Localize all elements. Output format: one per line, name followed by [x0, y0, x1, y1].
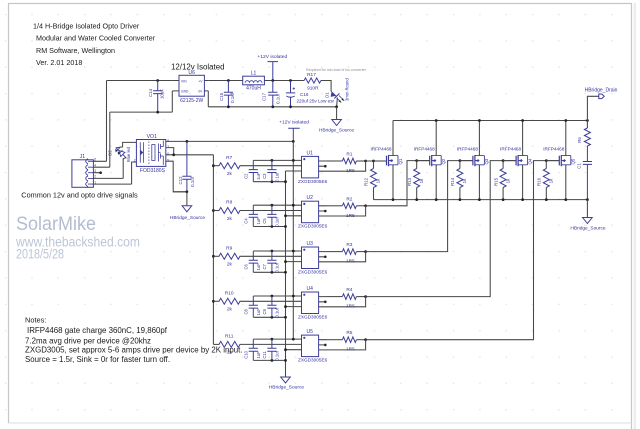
wire Q4 drain riser — [522, 121, 524, 156]
svg-text:Ver. 2.01 2018: Ver. 2.01 2018 — [36, 58, 82, 67]
wire U2 sink loop — [327, 206, 366, 216]
resistor R2 1R5 — [342, 203, 356, 209]
svg-text:1uF: 1uF — [256, 263, 261, 271]
svg-text:R9: R9 — [226, 246, 232, 252]
svg-text:1k: 1k — [505, 178, 510, 183]
svg-text:R6: R6 — [577, 137, 582, 143]
junction ch1 vcc rail cap — [271, 159, 274, 162]
gate driver U5 ZXGD3005E6 — [302, 335, 319, 357]
svg-text:0.1uf: 0.1uf — [275, 93, 280, 104]
svg-text:U6: U6 — [188, 70, 195, 76]
wire VO1 pin6 output — [166, 154, 214, 156]
wire +12V common riser (J1 pin5 to U6 VIN) — [106, 81, 108, 162]
wire ch3 gate run — [366, 161, 473, 252]
wire U3 to R3 — [327, 251, 343, 253]
junction ch3 gnd rail cap — [271, 271, 274, 274]
junction R1 output — [364, 160, 367, 163]
capacitor C8 1uF — [249, 296, 258, 317]
wire ch5 vcc rail — [253, 338, 301, 340]
wire Q1 source drop — [392, 165, 394, 200]
wire common gnd rail to U6 GND — [110, 91, 173, 112]
caption 12/12v Isolated — [171, 62, 225, 71]
svg-text:Notes:: Notes: — [25, 316, 46, 325]
title text block — [33, 21, 156, 67]
transistor Q1 IRFP4468 — [387, 155, 399, 166]
svg-text:Modular and Water Cooled Conve: Modular and Water Cooled Converter — [36, 34, 156, 43]
caption common signals — [21, 191, 138, 200]
junction ch1 vcc bus tap — [292, 159, 295, 162]
capacitor C16 220uf — [286, 81, 295, 107]
wire bus to R7 — [213, 165, 219, 167]
junction Q3 source rail — [478, 198, 481, 201]
wire to HBridge_Drain flag — [587, 96, 598, 120]
svg-text:6: 6 — [167, 152, 169, 156]
junction Q1 gate — [372, 160, 375, 163]
wire R1 out — [356, 160, 365, 162]
wire opto drive bus — [212, 155, 214, 345]
junction Q2 gate — [415, 159, 418, 162]
junction ch4 gnd rail bus — [284, 316, 287, 319]
svg-text:1uF: 1uF — [256, 351, 261, 359]
svg-text:3mm Round: 3mm Round — [345, 78, 350, 101]
svg-text:2k: 2k — [227, 262, 233, 268]
svg-text:ZXGD3005E6: ZXGD3005E6 — [298, 358, 328, 363]
svg-text:GND: GND — [181, 90, 189, 94]
capacitor C11 0.1uf — [267, 339, 276, 360]
svg-text:0.1uf: 0.1uf — [274, 350, 279, 360]
wire Q5 gate stub — [546, 160, 559, 162]
svg-text:D2: D2 — [108, 150, 113, 156]
svg-text:D1: D1 — [324, 92, 329, 98]
capacitor C2 1uF — [249, 160, 258, 181]
resistor R13 1k — [414, 169, 420, 188]
svg-text:C15: C15 — [219, 92, 224, 101]
junction ch2 gnd pin tap — [284, 214, 287, 217]
svg-text:C1: C1 — [577, 163, 582, 169]
svg-text:R8: R8 — [226, 200, 232, 206]
transistor Q2 IRFP4468 — [430, 155, 442, 166]
junction VO1 pins 6-7 — [172, 153, 175, 156]
wire Q4 source drop — [522, 165, 524, 200]
svg-text:U3: U3 — [306, 241, 313, 247]
resistor R1 1R5 — [342, 158, 356, 164]
capacitor C14 — [153, 81, 162, 113]
wire U1 sink loop — [327, 161, 366, 171]
wire drain rail — [393, 120, 587, 122]
svg-text:2k: 2k — [227, 171, 233, 177]
junction Q1 source rail — [392, 198, 395, 201]
wire ch2 vcc rail — [253, 204, 301, 206]
transistor Q4 IRFP4468 — [516, 155, 528, 166]
junction C14 bottom — [156, 111, 159, 114]
junction Q4 drain rail — [521, 119, 524, 122]
junction R15 source rail — [502, 198, 505, 201]
junction drain rail right — [586, 119, 589, 122]
LED D2 (Blue led) — [115, 148, 126, 158]
capacitor C3 0.1uf — [267, 160, 276, 181]
svg-text:U1: U1 — [306, 150, 313, 156]
svg-text:C17: C17 — [261, 92, 266, 101]
svg-text:Q2: Q2 — [441, 158, 446, 164]
LED D1 3mm Round — [331, 91, 345, 103]
junction ch4 gnd rail cap — [271, 316, 274, 319]
wire R8 to U2 input — [240, 210, 302, 212]
svg-text:R14: R14 — [450, 177, 455, 186]
svg-text:IRFP4468 gate charge 360nC, 1: IRFP4468 gate charge 360nC, 19,860pf — [27, 326, 168, 335]
junction R5 output — [364, 338, 367, 341]
no-connect dot J1 pin 3 — [99, 171, 102, 174]
svg-text:7.2ma avg drive per device @2: 7.2ma avg drive per device @20khz — [25, 336, 151, 345]
junction ch3 gnd pin tap — [284, 260, 287, 263]
svg-text:0.1uf: 0.1uf — [274, 262, 279, 272]
junction R16 source rail — [545, 198, 548, 201]
wire R16 leads — [545, 161, 547, 200]
resistor R6 — [584, 128, 590, 146]
optocoupler VO1 FOD3180S — [136, 140, 165, 167]
wire U4 to R4 — [327, 296, 343, 298]
svg-text:2018/5/28: 2018/5/28 — [16, 246, 64, 261]
wire R12 leads — [373, 161, 375, 200]
connector J1 — [72, 154, 96, 187]
junction C1 source rail — [586, 198, 589, 201]
junction C14 top — [156, 79, 159, 82]
svg-text:ZXGD3005, set approx 5-6 amps: ZXGD3005, set approx 5-6 amps drive per … — [25, 346, 243, 355]
junction Q4 source rail — [521, 198, 524, 201]
junction Q5 drain rail — [564, 119, 567, 122]
junction ch4 vcc rail cap — [271, 295, 274, 298]
ground HBridge_Source (driver bus) — [281, 377, 291, 383]
svg-text:IRFP4468: IRFP4468 — [370, 146, 391, 151]
wire Q3 gate stub — [460, 160, 473, 162]
junction ch4 vcc bus tap — [292, 295, 295, 298]
svg-text:1k: 1k — [462, 178, 467, 183]
svg-text:0.1uf: 0.1uf — [230, 92, 235, 103]
no-connect dot U5 mid pin — [324, 344, 327, 347]
junction ch5 gnd pin tap — [284, 348, 287, 351]
wire bus to R8 — [213, 210, 219, 212]
svg-text:C9: C9 — [262, 308, 267, 314]
wire U2 output pins — [319, 206, 327, 216]
wire ch3 vcc rail — [253, 250, 301, 252]
svg-text:IRFP4468: IRFP4468 — [500, 146, 521, 151]
wire LED D2 risers — [116, 142, 136, 158]
junction ch5 vcc rail cap — [271, 338, 274, 341]
svg-text:R3: R3 — [346, 242, 352, 248]
wire Q5 drain riser — [565, 121, 567, 156]
wire isolated +12V line — [208, 81, 331, 92]
wire to ground flag D1 — [336, 107, 338, 120]
junction ch1 gnd rail cap — [271, 180, 274, 183]
junction C17 top — [271, 79, 274, 82]
inductor L1 470uH — [243, 76, 265, 85]
power flag +12V isolated (driver bus) — [279, 120, 309, 142]
gate driver U1 ZXGD3005E6 — [302, 156, 319, 178]
junction ch5 gnd rail cap — [271, 359, 274, 362]
junction Q4 gate — [502, 159, 505, 162]
svg-text:C16: C16 — [300, 92, 309, 97]
svg-text:1uF: 1uF — [256, 308, 261, 316]
wire U6 pin stubs — [172, 81, 208, 91]
svg-text:Q3: Q3 — [484, 158, 489, 164]
svg-text:SolarMike: SolarMike — [16, 213, 96, 235]
wire U4 output pins — [319, 297, 327, 307]
watermark SolarMike — [15, 213, 140, 262]
svg-text:Q5: Q5 — [571, 158, 576, 164]
svg-text:IRFP4468: IRFP4468 — [543, 146, 564, 151]
ground HBridge_Source (right) — [583, 218, 593, 224]
notes text block — [25, 316, 243, 365]
svg-text:C12: C12 — [178, 176, 183, 185]
wire U3 output pins — [319, 252, 327, 262]
svg-text:R17: R17 — [307, 72, 316, 78]
svg-text:J1: J1 — [80, 154, 86, 160]
wire U5 to R5 — [327, 339, 343, 341]
junction Q2 source rail — [435, 198, 438, 201]
no-connect dot U2 mid pin — [324, 210, 327, 213]
wire source rail — [374, 199, 588, 201]
wire Q1 gate stub — [374, 160, 387, 162]
svg-text:C6: C6 — [244, 263, 249, 269]
svg-text:HBridge_Source: HBridge_Source — [269, 385, 305, 391]
junction +12V bus top — [292, 140, 295, 143]
capacitor C17 — [268, 81, 277, 107]
capacitor C1 — [583, 146, 592, 200]
junction R13 source rail — [415, 198, 418, 201]
svg-text:C10: C10 — [244, 350, 249, 358]
svg-text:1/4 H-Bridge Isolated Opto Dri: 1/4 H-Bridge Isolated Opto Driver — [33, 21, 140, 30]
junction C17 bottom — [271, 105, 274, 108]
wire ch4 vcc rail — [253, 295, 301, 297]
wire ch4 gnd rail — [253, 307, 301, 318]
svg-text:R12: R12 — [364, 177, 369, 186]
gate driver U3 ZXGD3005E6 — [302, 247, 319, 269]
svg-text:2k: 2k — [227, 350, 233, 356]
wire Q3 source drop — [478, 165, 480, 200]
svg-text:C5: C5 — [262, 218, 267, 224]
wire +12V isolated bus — [292, 141, 294, 339]
wire bus to R9 — [213, 255, 219, 257]
junction ch2 gnd rail cap — [271, 225, 274, 228]
resistor R8 2k — [219, 208, 240, 214]
DC-DC module U6 62125-2W — [179, 75, 204, 96]
resistor R17 — [304, 78, 321, 83]
capacitor C5 0.1uf — [267, 205, 276, 226]
capacitor C4 1uF — [249, 205, 258, 226]
wire Q2 gate stub — [417, 160, 430, 162]
resistor R9 2k — [219, 253, 240, 259]
resistor R10 2k — [219, 298, 240, 304]
wire bus to R11 — [213, 343, 219, 345]
wire ch1 gate run — [366, 160, 387, 162]
svg-text:R11: R11 — [225, 334, 234, 340]
wire U1 to R1 — [327, 160, 343, 162]
resistor R4 1R5 — [342, 294, 356, 300]
wire R14 leads — [459, 161, 461, 200]
junction Q2 drain rail — [435, 119, 438, 122]
junction ch2 vcc bus tap — [292, 204, 295, 207]
svg-text:Required for min load of iso c: Required for min load of iso converter — [306, 68, 367, 72]
svg-text:1k: 1k — [376, 178, 381, 183]
svg-text:+12V isolated: +12V isolated — [257, 54, 287, 60]
svg-text:220uf 25v Low esr: 220uf 25v Low esr — [297, 98, 335, 103]
wire ch1 vcc rail — [253, 159, 301, 161]
wire Q5 source drop — [565, 165, 567, 200]
capacitor C6 1uF — [249, 251, 258, 272]
wire C12 bottom tie — [173, 191, 187, 193]
junction ch1 gnd rail bus — [284, 180, 287, 183]
ground HBridge_Source (opto) — [182, 206, 192, 212]
wire J1 pin1 to VO1 pin2 — [132, 162, 137, 184]
junction Q5 gate — [545, 159, 548, 162]
junction Q3 gate — [459, 159, 462, 162]
junction opto bus ch4 — [212, 300, 215, 303]
wire R7 to U1 input — [240, 165, 302, 167]
wire +12V isolated rail (opto row) — [187, 140, 293, 142]
svg-text:C7: C7 — [262, 263, 267, 269]
wire ch2 gnd rail — [253, 216, 301, 227]
svg-text:L1: L1 — [251, 71, 257, 77]
ground HBridge_Source (D1) — [332, 120, 342, 126]
svg-text:470uH: 470uH — [246, 86, 261, 92]
junction ch5 gnd rail bus — [284, 359, 287, 362]
svg-text:C4: C4 — [244, 218, 249, 224]
wire Q1 drain riser — [392, 121, 394, 156]
wire R5 out — [356, 339, 365, 341]
svg-text:0.1uf: 0.1uf — [274, 217, 279, 227]
junction C12 bottom — [186, 190, 189, 193]
capacitor C9 0.1uf — [267, 296, 276, 317]
wire ch5 gnd rail — [253, 350, 301, 361]
junction ch3 vcc rail cap — [271, 250, 274, 253]
svg-text:FOD3180S: FOD3180S — [140, 168, 166, 174]
junction C12 top — [186, 140, 189, 143]
svg-text:Q1: Q1 — [398, 158, 403, 164]
svg-text:2: 2 — [134, 158, 136, 162]
wire D1 cathode to rail — [336, 98, 339, 107]
junction R2 output — [364, 204, 367, 207]
svg-text:10uF: 10uF — [159, 89, 164, 99]
svg-text:R13: R13 — [407, 177, 412, 186]
junction C16 bottom — [289, 105, 292, 108]
junction C16 top — [289, 79, 292, 82]
wire Q2 drain riser — [435, 121, 437, 156]
svg-text:RM Software, Wellington: RM Software, Wellington — [36, 46, 115, 55]
svg-text:IRFP4468: IRFP4468 — [414, 146, 435, 151]
wire Q4 gate stub — [503, 160, 516, 162]
wire R15 leads — [502, 161, 504, 200]
net flag HBridge_Drain — [599, 94, 604, 99]
wire R13 leads — [416, 161, 418, 200]
svg-text:R15: R15 — [493, 177, 498, 186]
svg-text:ZXGD3005E6: ZXGD3005E6 — [298, 179, 328, 184]
svg-text:Q4: Q4 — [527, 158, 532, 164]
wire VO1 pin5 to ground rail — [166, 161, 187, 192]
junction ch2 gnd rail bus — [284, 225, 287, 228]
power flag +12V isolated (top) — [257, 54, 287, 81]
junction Q5 source rail — [564, 198, 567, 201]
resistor R16 1k — [543, 169, 549, 188]
wire U1 output pins — [319, 161, 327, 171]
junction opto bus ch1 — [212, 164, 215, 167]
wire Q3 drain riser — [478, 121, 480, 156]
svg-text:R5: R5 — [346, 330, 352, 336]
svg-text:ZXGD3005E6: ZXGD3005E6 — [298, 270, 328, 275]
no-connect dot U3 mid pin — [324, 255, 327, 258]
wire common gnd riser (J1 pin4) — [109, 112, 111, 167]
svg-text:VIN: VIN — [181, 79, 187, 83]
wire ch4 gate run — [366, 161, 516, 297]
svg-text:Source = 1.5r, Sink = 0r for f: Source = 1.5r, Sink = 0r for faster turn… — [25, 355, 170, 364]
wire source bus to ground — [285, 372, 287, 378]
junction C15 bottom — [227, 105, 230, 108]
wire VIN feed line — [107, 80, 173, 82]
wire U3 sink loop — [327, 252, 366, 262]
svg-text:0.1uf: 0.1uf — [274, 307, 279, 317]
svg-text:ZXGD3005E6: ZXGD3005E6 — [298, 224, 328, 229]
wire ch2 gate run — [366, 161, 430, 206]
svg-text:Blue led: Blue led — [126, 146, 131, 162]
wire ch1 gnd rail — [253, 171, 301, 182]
junction ch5 vcc bus tap — [292, 338, 295, 341]
svg-text:C8: C8 — [244, 308, 249, 314]
junction opto bus ch2 — [212, 209, 215, 212]
wire U5 output pins — [319, 340, 327, 350]
capacitor C15 — [224, 81, 233, 107]
junction ch2 vcc rail cap — [271, 204, 274, 207]
svg-text:C14: C14 — [148, 88, 153, 97]
wire source bus — [285, 171, 287, 372]
junction D1 / 0V rail end — [335, 105, 338, 108]
svg-text:ZXGD3005E6: ZXGD3005E6 — [298, 315, 328, 320]
wire R9 to U3 input — [240, 255, 302, 257]
wire R11 to U5 input — [240, 343, 302, 345]
svg-text:910R: 910R — [307, 85, 319, 91]
svg-text:C3: C3 — [262, 173, 267, 179]
resistor R15 1k — [500, 169, 506, 188]
junction R3 output — [364, 250, 367, 253]
wire R2 out — [356, 205, 365, 207]
junction opto bus ch3 — [212, 255, 215, 258]
svg-text:2k: 2k — [227, 216, 233, 222]
wire Q2 source drop — [435, 165, 437, 200]
svg-text:12/12v Isolated: 12/12v Isolated — [171, 62, 225, 71]
junction Q3 drain rail — [478, 119, 481, 122]
wire ch3 gnd rail — [253, 262, 301, 273]
svg-text:1k: 1k — [419, 178, 424, 183]
resistor R7 2k — [219, 163, 240, 169]
wire U2 to R2 — [327, 205, 343, 207]
svg-text:R4: R4 — [346, 287, 352, 293]
svg-text:R7: R7 — [226, 155, 232, 161]
no-connect dot U4 mid pin — [324, 301, 327, 304]
svg-text:R16: R16 — [537, 177, 542, 186]
svg-text:R2: R2 — [346, 196, 352, 202]
svg-text:U5: U5 — [306, 329, 313, 335]
svg-text:62125-2W: 62125-2W — [180, 98, 203, 104]
wire R3 out — [356, 251, 365, 253]
resistor R5 1R5 — [342, 337, 356, 343]
junction R4 output — [364, 295, 367, 298]
junction ch3 vcc bus tap — [292, 250, 295, 253]
svg-text:U2: U2 — [306, 195, 313, 201]
svg-text:1uF: 1uF — [256, 217, 261, 225]
svg-text:IRFP4468: IRFP4468 — [457, 146, 478, 151]
svg-text:HBridge_Source: HBridge_Source — [319, 127, 355, 133]
wire C12 to ground — [186, 192, 188, 206]
wire J1 pin stubs — [93, 161, 131, 184]
wire bus to R10 — [213, 300, 219, 302]
junction ch4 gnd pin tap — [284, 305, 287, 308]
